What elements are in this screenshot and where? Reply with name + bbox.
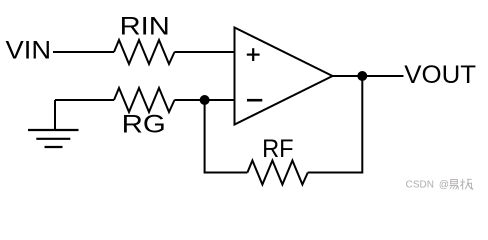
svg-text:RG: RG: [122, 111, 166, 139]
wire ground to RG: [55, 99, 114, 101]
ground: [28, 100, 79, 147]
op-amp U1: [235, 28, 333, 125]
svg-text:CSDN: CSDN: [406, 180, 434, 191]
wire RF to output vertical: [308, 76, 363, 173]
svg-text:RIN: RIN: [120, 13, 170, 41]
node output junction dot: [357, 71, 367, 81]
watermark glyph yi: [450, 180, 459, 190]
resistor RF: [247, 161, 307, 185]
resistor RIN: [114, 40, 175, 64]
wire VIN to RIN: [53, 51, 114, 53]
watermark glyph ban: [460, 179, 473, 190]
svg-text:RF: RF: [262, 135, 294, 163]
wire RG to op-amp - input: [175, 99, 235, 101]
wire RIN to op-amp + input: [175, 51, 235, 53]
svg-text:VIN: VIN: [6, 37, 52, 65]
wire op-amp output to VOUT: [333, 75, 404, 77]
resistor RG: [114, 88, 175, 112]
wire junction down to RF row: [205, 100, 248, 173]
op-amp + input symbol: [247, 48, 260, 61]
svg-text:VOUT: VOUT: [404, 61, 476, 89]
node junction dot at inverting input: [200, 95, 210, 105]
op-amp - input symbol: [247, 99, 262, 102]
svg-text:@: @: [439, 180, 449, 191]
